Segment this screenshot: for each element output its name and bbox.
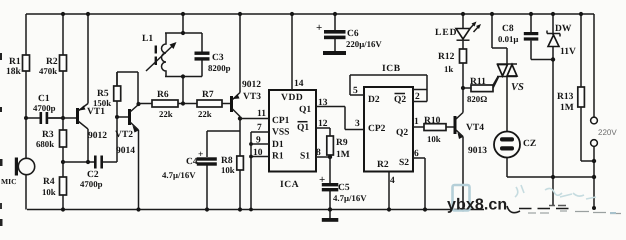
svg-text:R11: R11	[470, 77, 486, 87]
220V output terminals	[591, 14, 618, 210]
svg-text:R7: R7	[202, 90, 214, 100]
svg-text:10k: 10k	[221, 165, 235, 175]
thyristor VS (triac)	[490, 12, 524, 93]
svg-text:11V: 11V	[560, 47, 576, 57]
svg-text:14: 14	[294, 79, 304, 89]
svg-text:R4: R4	[43, 177, 55, 187]
svg-text:18k: 18k	[6, 67, 22, 77]
resistor R12	[438, 49, 467, 74]
svg-text:10k: 10k	[42, 187, 56, 197]
capacitor C6	[316, 12, 382, 55]
ICA pin 12 wire	[316, 119, 330, 136]
svg-text:12: 12	[318, 119, 328, 129]
svg-text:R2: R2	[377, 160, 389, 170]
svg-text:1k: 1k	[444, 64, 453, 74]
svg-text:ybx8.cn: ybx8.cn	[447, 197, 507, 214]
svg-text:CZ: CZ	[523, 139, 536, 149]
svg-text:680k: 680k	[36, 139, 54, 149]
svg-text:9012: 9012	[88, 131, 107, 141]
svg-text:1M: 1M	[336, 150, 350, 160]
transistor VT4 (9013)	[455, 63, 487, 212]
svg-text:VS: VS	[511, 82, 524, 93]
IC ICA box	[269, 90, 316, 190]
inductor L1 (tank)	[142, 12, 202, 103]
ICB pin 4 wire	[387, 172, 395, 212]
svg-text:1: 1	[414, 117, 419, 127]
svg-text:R10: R10	[424, 116, 441, 126]
zener diode DW	[547, 12, 576, 206]
wire top supply rail	[26, 13, 594, 15]
svg-text:7: 7	[257, 123, 262, 133]
svg-text:470k: 470k	[39, 66, 57, 76]
svg-text:10: 10	[253, 148, 263, 158]
svg-text:9014: 9014	[116, 146, 135, 156]
svg-text:C3: C3	[212, 53, 224, 63]
ICA pin 8 wire	[316, 148, 332, 159]
ICA pin 11 wire (VT3 collector to CP1)	[240, 109, 269, 119]
svg-text:8: 8	[316, 148, 321, 158]
svg-text:+: +	[316, 22, 322, 34]
resistor R4	[42, 160, 67, 212]
svg-text:8200p: 8200p	[208, 63, 231, 73]
svg-text:4.7μ/16V: 4.7μ/16V	[333, 193, 367, 203]
svg-text:6: 6	[414, 149, 419, 159]
svg-text:VT1: VT1	[87, 107, 105, 117]
svg-text:220μ/16V: 220μ/16V	[346, 39, 382, 49]
svg-text:R1: R1	[9, 57, 21, 67]
svg-text:150k: 150k	[93, 98, 111, 108]
resistor R13	[557, 12, 594, 161]
svg-text:VT4: VT4	[466, 123, 484, 133]
resistor R6	[139, 90, 198, 119]
svg-text:R1: R1	[272, 152, 284, 162]
ICB D2-to-Q2bar feedback hat wire	[350, 75, 427, 102]
svg-text:220V: 220V	[598, 128, 617, 137]
capacitor C1	[26, 94, 63, 124]
capacitor C8	[498, 12, 553, 60]
resistor R5	[93, 72, 121, 117]
svg-text:C8: C8	[502, 24, 514, 34]
svg-text:VT2: VT2	[115, 130, 133, 140]
svg-text:VDD: VDD	[281, 93, 303, 103]
resistor R1	[6, 14, 30, 118]
svg-text:C4: C4	[186, 157, 198, 167]
watermark glyph box	[453, 185, 617, 213]
node junction R1/C1/MIC	[24, 116, 28, 120]
svg-text:3: 3	[355, 119, 360, 129]
svg-text:+: +	[198, 150, 203, 160]
transistor VT1 (9012)	[48, 12, 107, 164]
capacitor C2	[63, 156, 117, 190]
svg-text:R13: R13	[557, 92, 574, 102]
ICA pins 7/9/10 ground chain	[249, 123, 269, 211]
svg-text:10k: 10k	[427, 134, 441, 144]
svg-text:Q1: Q1	[297, 123, 309, 133]
svg-text:S1: S1	[300, 152, 310, 162]
svg-text:CP2: CP2	[368, 124, 386, 134]
svg-text:1M: 1M	[560, 103, 574, 113]
svg-text:820Ω: 820Ω	[467, 94, 487, 104]
microphone MIC	[1, 118, 35, 210]
svg-text:VSS: VSS	[272, 128, 289, 138]
IC ICB box	[364, 64, 413, 172]
svg-text:C5: C5	[338, 183, 350, 193]
svg-text:ICB: ICB	[382, 64, 401, 74]
svg-text:R6: R6	[157, 90, 169, 100]
resistor R2	[39, 12, 67, 118]
resistor R8	[221, 131, 243, 212]
svg-text:Q2: Q2	[394, 95, 406, 105]
transistor VT2 (9014)	[115, 72, 141, 212]
svg-text:VT3: VT3	[243, 92, 261, 102]
svg-text:4700p: 4700p	[80, 179, 103, 189]
resistor R3	[36, 116, 67, 162]
svg-text:4.7μ/16V: 4.7μ/16V	[162, 170, 196, 180]
svg-text:C6: C6	[347, 29, 359, 39]
svg-text:R12: R12	[438, 52, 455, 62]
svg-text:MIC: MIC	[1, 177, 17, 186]
ICB pin 6 wire	[413, 149, 427, 212]
resistor R10	[413, 116, 455, 144]
svg-text:+: +	[319, 174, 325, 186]
svg-text:D1: D1	[272, 140, 284, 150]
wire bottom ground rail	[27, 209, 621, 214]
socket CZ	[494, 77, 594, 178]
LED	[435, 12, 481, 49]
transistor VT3 (9012)	[232, 12, 262, 131]
svg-text:22k: 22k	[198, 109, 212, 119]
svg-text:D2: D2	[368, 95, 380, 105]
svg-text:L1: L1	[142, 34, 153, 44]
resistor R7	[197, 90, 231, 119]
svg-text:Q1: Q1	[299, 105, 311, 115]
svg-text:13: 13	[318, 98, 328, 108]
svg-text:9: 9	[256, 136, 261, 146]
capacitor C4	[162, 131, 240, 212]
svg-text:9012: 9012	[242, 80, 261, 90]
svg-text:22k: 22k	[159, 109, 173, 119]
watermark text ybx8.cn	[447, 197, 520, 214]
svg-text:CP1: CP1	[272, 116, 290, 126]
svg-text:2: 2	[415, 92, 420, 102]
svg-text:Q2: Q2	[396, 128, 408, 138]
svg-text:5: 5	[353, 86, 358, 96]
svg-text:11: 11	[257, 109, 266, 119]
svg-text:9013: 9013	[468, 146, 487, 156]
svg-text:4: 4	[390, 176, 395, 186]
capacitor C3	[195, 33, 231, 77]
svg-text:S2: S2	[399, 158, 409, 168]
svg-text:DW: DW	[555, 24, 572, 34]
svg-text:0.01μ: 0.01μ	[498, 34, 518, 44]
svg-text:R9: R9	[336, 138, 348, 148]
resistor R9	[327, 136, 350, 160]
scan edge artifacts	[0, 53, 3, 226]
resistor R11	[461, 77, 499, 104]
svg-text:LED: LED	[435, 28, 458, 38]
ICA pin 13 to ICB pin 3 wire	[316, 98, 364, 130]
svg-text:4700p: 4700p	[33, 103, 56, 113]
svg-text:ICA: ICA	[280, 180, 299, 190]
capacitor C5	[319, 157, 367, 222]
ICA pin 14 VDD wire	[290, 12, 304, 90]
